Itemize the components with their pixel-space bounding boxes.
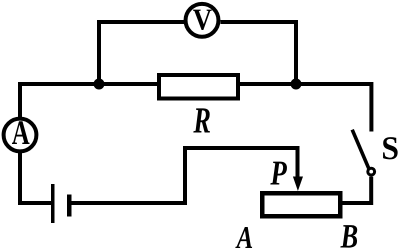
- wiper stem wire: [296, 146, 300, 178]
- svg-text:R: R: [193, 100, 211, 141]
- wire: battery to riser to wiper feed: [72, 148, 298, 203]
- label A (left terminal): [235, 220, 253, 250]
- wire: rheostat right terminal to switch pivot: [343, 177, 372, 204]
- label B (right terminal): [340, 219, 358, 250]
- svg-text:P: P: [270, 154, 288, 193]
- ammeter A1: [4, 114, 37, 152]
- svg-text:A: A: [235, 220, 253, 250]
- resistor R box: [159, 75, 238, 99]
- wire: voltmeter branch right riser: [221, 22, 297, 84]
- wire: resistor right through junction to switch top terminal: [240, 84, 371, 132]
- battery short plate: [67, 195, 72, 217]
- switch pivot circle: [368, 168, 375, 175]
- svg-text:V: V: [193, 3, 212, 37]
- voltmeter V1: [186, 3, 219, 37]
- label S: [381, 131, 399, 167]
- junction node right: [291, 79, 302, 90]
- wire: ammeter bottom down then right to battery: [20, 153, 51, 203]
- label R: [193, 100, 211, 141]
- label P: [270, 154, 288, 193]
- svg-text:B: B: [340, 219, 358, 250]
- junction node left: [94, 79, 105, 90]
- battery long plate: [51, 184, 55, 223]
- svg-text:S: S: [381, 131, 399, 167]
- wire: voltmeter branch left riser: [99, 22, 184, 84]
- wiper arrowhead: [293, 177, 303, 192]
- switch blade: [352, 130, 369, 169]
- rheostat box: [262, 193, 340, 216]
- svg-text:A: A: [12, 114, 30, 152]
- wire: main horizontal (left) and left drop to ammeter: [20, 84, 157, 117]
